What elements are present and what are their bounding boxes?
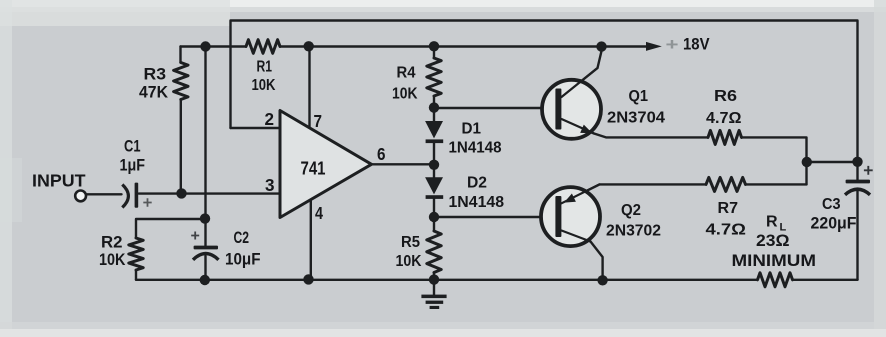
- svg-text:R4: R4: [397, 65, 416, 82]
- svg-text:2N3702: 2N3702: [606, 223, 661, 240]
- svg-text:18V: 18V: [683, 35, 710, 54]
- svg-text:R7: R7: [718, 200, 739, 217]
- svg-text:R: R: [766, 214, 778, 231]
- svg-text:4.7Ω: 4.7Ω: [706, 110, 742, 127]
- svg-text:6: 6: [377, 144, 386, 164]
- svg-text:10K: 10K: [99, 251, 126, 269]
- svg-text:INPUT: INPUT: [32, 171, 86, 191]
- svg-text:4: 4: [315, 203, 323, 223]
- svg-text:1N4148: 1N4148: [449, 194, 505, 211]
- svg-text:220μF: 220μF: [811, 215, 857, 233]
- svg-text:2N3704: 2N3704: [607, 110, 665, 127]
- svg-text:1N4148: 1N4148: [449, 140, 502, 157]
- svg-text:47K: 47K: [139, 84, 168, 102]
- svg-text:1μF: 1μF: [120, 157, 146, 175]
- svg-text:C2: C2: [234, 228, 250, 247]
- svg-text:D1: D1: [462, 121, 482, 138]
- svg-text:7: 7: [314, 111, 323, 131]
- svg-text:4.7Ω: 4.7Ω: [706, 222, 747, 239]
- svg-text:R5: R5: [401, 234, 420, 251]
- svg-text:+: +: [666, 35, 679, 54]
- svg-text:10K: 10K: [252, 77, 276, 94]
- svg-text:23Ω: 23Ω: [756, 232, 790, 250]
- svg-text:741: 741: [301, 158, 326, 179]
- svg-text:10K: 10K: [392, 86, 418, 103]
- svg-text:R3: R3: [144, 66, 167, 84]
- svg-text:3: 3: [265, 175, 275, 195]
- svg-text:R6: R6: [714, 88, 737, 105]
- svg-text:10μF: 10μF: [225, 250, 261, 269]
- svg-text:R1: R1: [257, 59, 273, 76]
- svg-text:D2: D2: [467, 175, 487, 192]
- svg-text:Q2: Q2: [621, 202, 641, 219]
- svg-text:R2: R2: [101, 234, 123, 252]
- svg-text:2: 2: [265, 109, 275, 129]
- svg-text:Q1: Q1: [629, 88, 649, 105]
- svg-text:10K: 10K: [396, 253, 422, 270]
- svg-text:MINIMUM: MINIMUM: [732, 251, 817, 270]
- svg-text:C3: C3: [822, 196, 841, 213]
- svg-text:C1: C1: [124, 138, 141, 156]
